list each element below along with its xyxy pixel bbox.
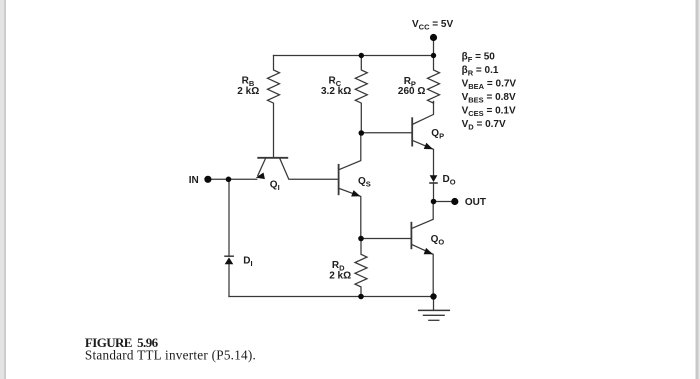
svg-text:VCES = 0.1V: VCES = 0.1V bbox=[462, 106, 516, 119]
svg-text:VBES = 0.8V: VBES = 0.8V bbox=[462, 92, 516, 105]
svg-text:QP: QP bbox=[431, 128, 444, 141]
svg-text:IN: IN bbox=[189, 175, 199, 186]
svg-text:βR = 0.1: βR = 0.1 bbox=[462, 65, 499, 78]
svg-text:3.2 kΩ: 3.2 kΩ bbox=[321, 86, 351, 97]
svg-text:VBEA = 0.7V: VBEA = 0.7V bbox=[462, 79, 517, 92]
svg-text:QS: QS bbox=[358, 176, 371, 189]
svg-text:2 kΩ: 2 kΩ bbox=[237, 86, 259, 97]
svg-text:260 Ω: 260 Ω bbox=[398, 86, 425, 97]
svg-text:DO: DO bbox=[443, 174, 456, 187]
svg-text:VD = 0.7V: VD = 0.7V bbox=[462, 119, 506, 132]
svg-text:βF = 50: βF = 50 bbox=[462, 52, 496, 65]
svg-text:DI: DI bbox=[243, 255, 252, 268]
svg-text:2 kΩ: 2 kΩ bbox=[329, 271, 351, 282]
svg-text:OUT: OUT bbox=[465, 197, 486, 208]
svg-text:QO: QO bbox=[431, 234, 445, 247]
svg-text:QI: QI bbox=[270, 179, 280, 192]
svg-text:Standard TTL inverter (P5.14).: Standard TTL inverter (P5.14). bbox=[85, 347, 256, 362]
svg-text:VCC = 5V: VCC = 5V bbox=[412, 19, 453, 32]
